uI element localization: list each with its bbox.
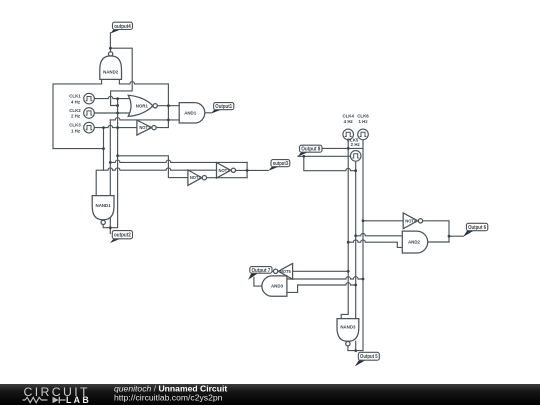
svg-text:NOT4: NOT4 [405, 218, 417, 223]
svg-text:LAB: LAB [66, 395, 91, 405]
svg-text:NAND3: NAND3 [340, 324, 356, 329]
svg-text:NAND2: NAND2 [103, 69, 119, 74]
svg-text:CLK4: CLK4 [342, 113, 354, 118]
svg-text:output3: output3 [273, 161, 288, 167]
svg-text:1 Hz: 1 Hz [358, 119, 368, 124]
svg-text:NOR1: NOR1 [136, 103, 149, 108]
svg-text:output4: output4 [114, 24, 131, 30]
svg-text:NOT2: NOT2 [190, 175, 202, 180]
svg-text:Output 8: Output 8 [301, 147, 320, 153]
svg-text:4 Hz: 4 Hz [71, 99, 81, 104]
svg-text:1 Hz: 1 Hz [71, 128, 81, 133]
svg-text:AND3: AND3 [271, 284, 284, 289]
svg-text:Output 6: Output 6 [468, 225, 486, 231]
svg-text:NOT1: NOT1 [139, 125, 151, 130]
svg-text:Output 5: Output 5 [360, 354, 378, 360]
svg-text:CLK6: CLK6 [357, 113, 369, 118]
svg-text:AND1: AND1 [184, 110, 197, 115]
svg-text:4 Hz: 4 Hz [344, 119, 354, 124]
svg-text:NAND1: NAND1 [96, 203, 112, 208]
svg-text:2 Hz: 2 Hz [351, 142, 361, 147]
svg-text:output2: output2 [114, 233, 131, 239]
svg-text:CLK2: CLK2 [69, 108, 81, 113]
svg-text:Output 7: Output 7 [252, 268, 271, 274]
svg-text:CLK3: CLK3 [69, 123, 81, 128]
svg-text:NOT5: NOT5 [280, 269, 292, 274]
svg-text:http://circuitlab.com/c2ys2pn: http://circuitlab.com/c2ys2pn [114, 392, 223, 402]
svg-text:Output1: Output1 [215, 104, 232, 110]
svg-text:AND2: AND2 [408, 240, 421, 245]
svg-text:NOT3: NOT3 [219, 168, 231, 173]
svg-text:2 Hz: 2 Hz [71, 114, 81, 119]
svg-text:CLK1: CLK1 [69, 94, 81, 99]
